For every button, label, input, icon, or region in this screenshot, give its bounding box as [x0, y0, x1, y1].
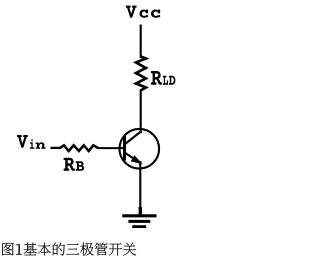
label RLD D — [169, 76, 176, 85]
char 管 — [95, 243, 108, 256]
char 极 — [80, 243, 93, 256]
char 本 — [38, 243, 51, 256]
ground bar 3 — [132, 225, 146, 228]
char 基 — [24, 243, 37, 256]
char 1 — [16, 244, 22, 254]
transistor Q1 base bar — [123, 136, 126, 161]
label RB R — [64, 158, 75, 171]
label RB B — [76, 161, 85, 170]
transistor Q1 emitter arrowhead — [131, 155, 143, 164]
label VCC V — [126, 6, 137, 18]
caption: 图1 基本的三极管开关 — [2, 243, 136, 256]
label RLD R — [151, 71, 162, 85]
transistor Q1 emitter stroke — [125, 153, 142, 164]
char 图 — [2, 243, 14, 256]
ground stem thick part — [139, 207, 142, 215]
label VCC c1 — [140, 10, 149, 18]
char 开 — [109, 243, 122, 255]
wire RLD to collector — [140, 90, 142, 134]
wire VIN to RB — [51, 147, 62, 149]
resistor RB — [60, 145, 98, 151]
label VCC c2 — [151, 10, 160, 18]
label RLD L — [163, 76, 168, 85]
wire VCC to RLD — [140, 25, 142, 59]
label VIN V — [17, 135, 28, 148]
label VIN n — [35, 142, 45, 148]
ground bar 1 — [122, 214, 156, 217]
transistor Q1 circle — [120, 129, 160, 169]
char 三 — [66, 244, 79, 255]
char 关 — [123, 243, 136, 256]
resistor RLD — [136, 57, 146, 91]
wire emitter to ground — [139, 161, 141, 215]
ground bar 2 — [128, 220, 150, 223]
wire RB to base — [98, 147, 124, 149]
label VIN i — [30, 139, 35, 149]
transistor Q1 collector stroke — [125, 131, 142, 145]
char 的 — [53, 243, 65, 256]
